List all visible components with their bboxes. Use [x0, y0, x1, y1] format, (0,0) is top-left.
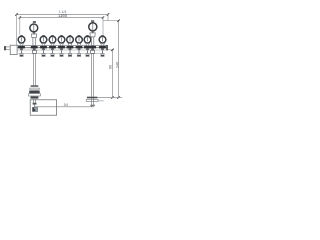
- tick D4 bottom: [117, 96, 119, 98]
- foot F10: [101, 50, 104, 56]
- tick D1 left: [15, 13, 17, 16]
- component mark: [34, 109, 36, 111]
- left union bar 1: [31, 85, 39, 87]
- gauge G8 (regular, x=87.5): [84, 35, 91, 46]
- bottom box: [30, 100, 56, 115]
- component block in box: [33, 107, 38, 111]
- valve V1 lower neck: [20, 48, 23, 50]
- manifold lower rail line: [19, 53, 105, 55]
- manifold right end cap: [106, 45, 108, 50]
- valve V6 lower neck: [69, 48, 72, 50]
- extension line left outer: [16, 13, 18, 45]
- right down pipe: [92, 53, 94, 106]
- valve V4 lower neck: [51, 48, 54, 50]
- gauge G10 (regular, x=102.5): [99, 35, 106, 46]
- manifold left flange box: [10, 45, 17, 54]
- extension line right outer: [107, 13, 109, 20]
- valve V9 lower neck: [91, 48, 94, 50]
- valve V6 wings: [67, 46, 74, 48]
- tick D3 top: [111, 49, 113, 51]
- extension top of tall dimension: [103, 20, 119, 22]
- gauge G6 (regular, x=70): [67, 35, 74, 46]
- valve V9 wings: [89, 46, 96, 48]
- component dark column: [33, 107, 35, 111]
- manifold pipe mid line: [17, 47, 108, 49]
- dimension line D3 vertical inner: [112, 50, 114, 98]
- valve V4 wings: [49, 46, 56, 48]
- valve V7 lower neck: [78, 48, 81, 50]
- foot F6: [68, 50, 71, 56]
- gauge G5 (regular, x=61.5): [58, 35, 65, 46]
- left plug pipe lines: [5, 46, 10, 48]
- valve V2 lower neck: [33, 48, 36, 50]
- svg-text:3/4: 3/4: [64, 103, 69, 107]
- stem to outlet elbow: [33, 105, 35, 107]
- extension line left inner: [19, 16, 21, 34]
- valve V5 wings: [58, 46, 65, 48]
- left down pipe: [33, 53, 35, 85]
- valve V8 lower neck: [86, 48, 89, 50]
- valve V5 lower neck: [60, 48, 63, 50]
- outlet line from box: [34, 106, 93, 108]
- dimension line D1 (overall width): [17, 14, 109, 16]
- left union bar 3: [29, 91, 40, 93]
- foot F5: [60, 50, 63, 56]
- union bar 2 dark bottom: [30, 89, 39, 91]
- small connector in box: [33, 103, 37, 105]
- foot F8: [86, 50, 89, 56]
- tick D4 top: [117, 20, 119, 22]
- svg-text:60: 60: [109, 65, 113, 69]
- foot F7: [77, 50, 80, 56]
- valve V7 wings: [76, 46, 83, 48]
- right pipe junction nub: [90, 105, 94, 107]
- left union bar 5: [31, 96, 39, 98]
- gauge G4 (regular, x=52.5): [49, 35, 56, 46]
- foot F3: [42, 50, 45, 56]
- gauge G1 (regular, x=21.5): [18, 35, 25, 46]
- svg-text:140: 140: [115, 62, 119, 68]
- gauge G2 raised (x=34.4): [30, 21, 38, 46]
- left plug cap: [4, 46, 6, 50]
- manifold pipe bottom line: [17, 49, 108, 51]
- valve V2 wings: [31, 46, 38, 48]
- right down pipe fitting at manifold: [91, 50, 95, 53]
- dimension line D2 (station span): [20, 17, 103, 19]
- pipe inside box: [33, 99, 35, 103]
- valve V1 wings: [18, 46, 25, 48]
- foot F4: [51, 50, 54, 56]
- valve V3 lower neck: [42, 48, 45, 50]
- dimension line D4 vertical outer: [118, 21, 120, 98]
- tick D2 right: [102, 16, 104, 18]
- manifold pipe top line: [17, 44, 108, 46]
- left union bar 4: [29, 94, 41, 96]
- tick D1 right: [107, 13, 109, 16]
- tick D2 left: [19, 16, 21, 18]
- stub from manifold end to D3: [108, 49, 114, 51]
- right union bar 2: [86, 100, 98, 102]
- valve V8 wings: [84, 46, 91, 48]
- stub right of lower union: [98, 100, 104, 102]
- left union bar 2: [30, 88, 39, 90]
- valve V3 wings: [40, 46, 47, 48]
- foot F1: [20, 50, 23, 56]
- gauge G7 (regular, x=79): [76, 35, 83, 46]
- left down pipe fitting at manifold: [32, 50, 36, 53]
- extension line right inner: [102, 16, 104, 35]
- valve V10 lower neck: [101, 48, 104, 50]
- tick D3 bottom: [111, 96, 113, 98]
- gauge G9 raised (x=92.6): [89, 20, 97, 45]
- right union bar 1: [87, 97, 97, 99]
- gauge G3 (regular, x=43.5): [40, 35, 47, 46]
- valve V10 wings: [99, 46, 106, 48]
- outlet feet below regular stations: [20, 50, 104, 56]
- dimension baseline bottom right: [97, 97, 122, 99]
